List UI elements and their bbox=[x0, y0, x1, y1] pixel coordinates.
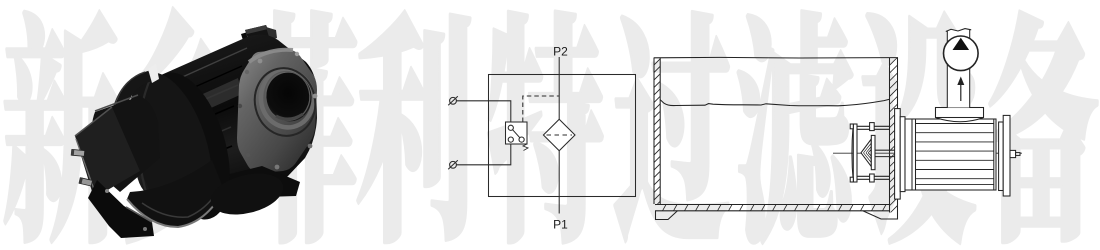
motor end flange A bbox=[999, 122, 1004, 191]
clogging indicator circle bbox=[944, 36, 979, 71]
riser pipe bbox=[946, 29, 971, 108]
schematic circuit group bbox=[448, 57, 635, 214]
diffuser rod nuts left bbox=[850, 124, 853, 182]
pump photo group bbox=[71, 25, 322, 238]
underside shadow bbox=[198, 166, 300, 199]
tie rod top bbox=[857, 126, 890, 129]
pilot dashed line to filter bbox=[523, 96, 559, 122]
center axis line bbox=[833, 152, 1022, 154]
enclosure box bbox=[489, 75, 636, 197]
pump head cylinder bbox=[91, 96, 160, 192]
rod nuts right top bbox=[870, 123, 875, 131]
right foot bbox=[863, 211, 898, 219]
bottom flange bulge bbox=[207, 167, 288, 222]
stud bolts bbox=[71, 149, 93, 186]
wire T1 to switch bbox=[456, 101, 510, 122]
switch contacts bbox=[508, 125, 524, 142]
outlet flange block bbox=[936, 108, 984, 118]
test point terminal T2 bbox=[448, 160, 458, 169]
hook notch bbox=[148, 64, 159, 84]
center hole bbox=[260, 67, 317, 126]
svg-text:P1: P1 bbox=[553, 218, 568, 232]
filter F1 (diamond) bbox=[543, 119, 575, 150]
suction cone strainer bbox=[861, 139, 871, 167]
cylinder ridges bbox=[145, 48, 247, 180]
mounting flange plate 2 bbox=[900, 117, 905, 192]
main disc flange bbox=[112, 63, 228, 233]
face top edge highlight bbox=[249, 50, 293, 62]
indicator triangle bbox=[953, 38, 970, 50]
shaft pin bbox=[1016, 153, 1020, 156]
diffuser front plate bbox=[852, 124, 857, 182]
face groove ring bbox=[248, 62, 322, 142]
rod nuts right bottom bbox=[870, 174, 875, 182]
spring on switch bbox=[523, 144, 528, 151]
pump head top edge bbox=[95, 95, 138, 111]
svg-text:P2: P2 bbox=[553, 45, 568, 59]
motor end flange B bbox=[1003, 115, 1010, 196]
tank right wall bbox=[735, 58, 1100, 213]
motor fins bbox=[916, 124, 994, 185]
wire T2 to switch bbox=[456, 144, 510, 165]
tank drawing group bbox=[508, 29, 1100, 220]
bracket plate bbox=[75, 107, 140, 198]
wire: P2 line upper bbox=[558, 57, 560, 119]
test point terminal T1 bbox=[448, 96, 458, 105]
strainer back bar bbox=[871, 135, 875, 169]
tie rod bottom bbox=[857, 176, 890, 179]
filter element dashed line bbox=[547, 134, 573, 136]
wire: P1 line lower bbox=[558, 151, 560, 214]
outlet saddle bbox=[936, 108, 984, 122]
pressure switch S1 (box) bbox=[506, 122, 528, 144]
tank top line bbox=[654, 56, 898, 59]
L mounting bracket bbox=[88, 180, 154, 238]
rear disc flange bbox=[130, 63, 245, 230]
tank bottom plate bbox=[652, 205, 890, 211]
shaft stub bbox=[1010, 150, 1016, 157]
mounting flange plate 1 bbox=[895, 109, 901, 200]
tank left wall bbox=[508, 58, 947, 205]
flow arrow up bbox=[957, 77, 964, 102]
hole boss ring bbox=[255, 65, 318, 132]
motor cylinder bbox=[135, 35, 317, 196]
cylinder sheen band bbox=[150, 78, 242, 134]
left foot bbox=[656, 211, 678, 220]
bolt bosses bbox=[238, 52, 318, 170]
motor ring lines bbox=[912, 119, 994, 190]
flange face octagon bbox=[237, 49, 317, 173]
suction pipe through wall bbox=[875, 150, 895, 156]
motor body bbox=[905, 119, 996, 190]
oil level wavy line bbox=[660, 99, 890, 106]
junction box bbox=[241, 25, 277, 44]
